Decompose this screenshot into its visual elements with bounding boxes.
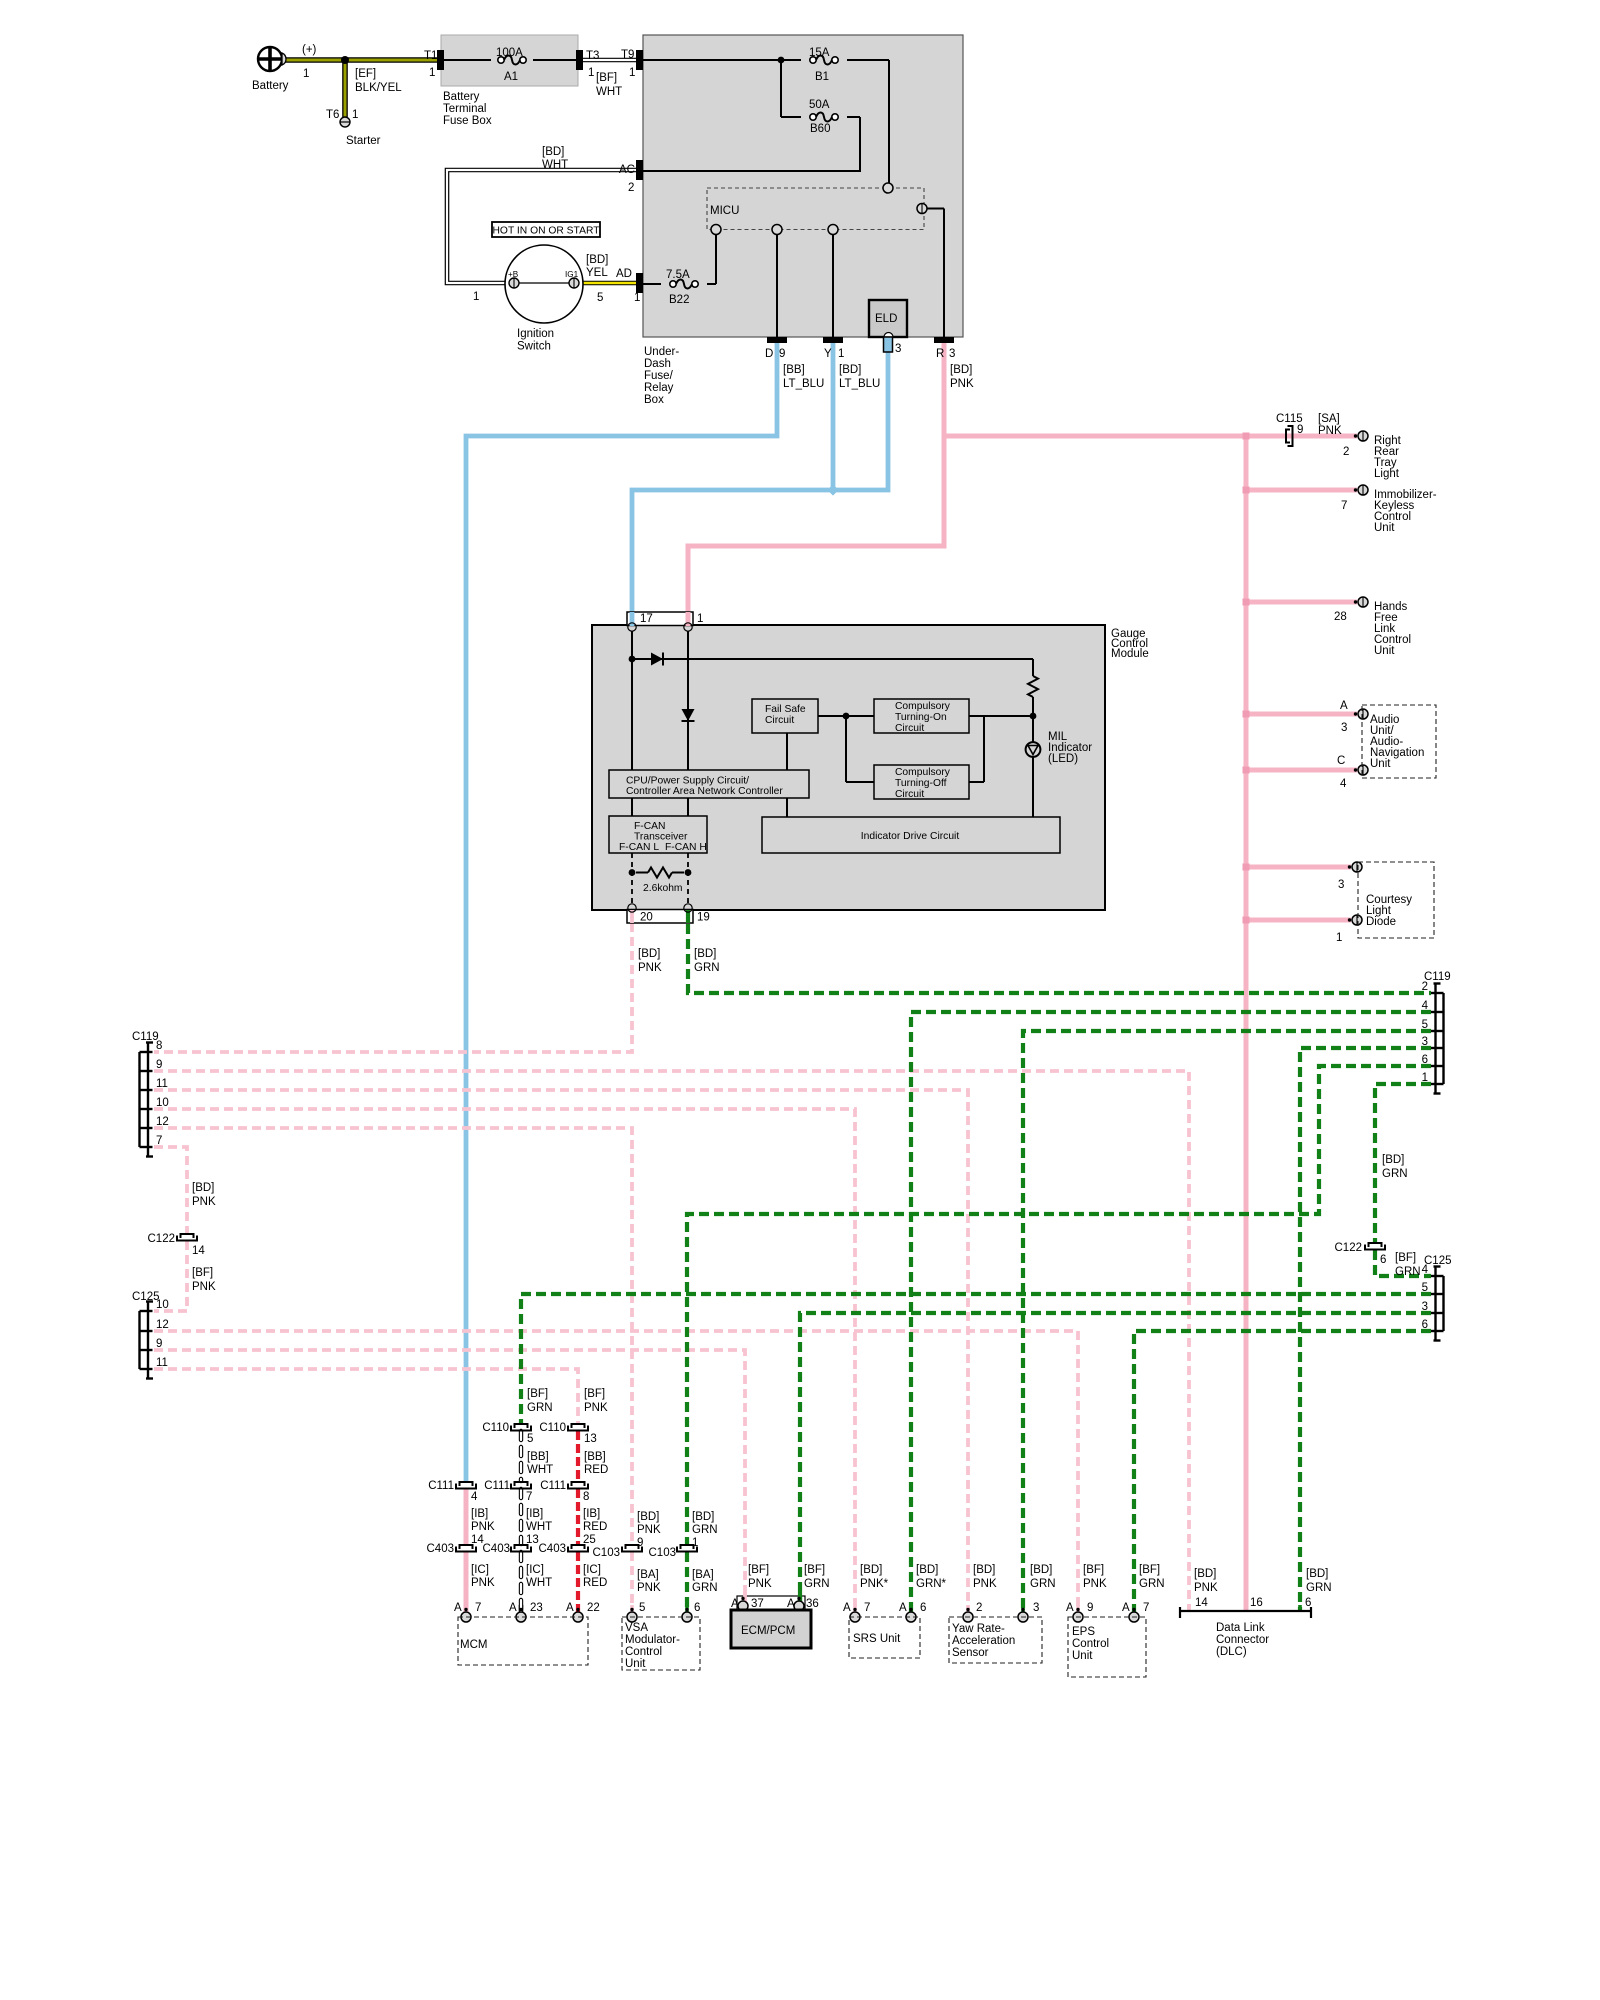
svg-text:Fuse/: Fuse/: [644, 370, 674, 382]
svg-text:28: 28: [1334, 611, 1347, 623]
svg-text:[IB]: [IB]: [471, 1508, 488, 1520]
svg-text:Circuit: Circuit: [895, 723, 924, 734]
svg-text:A: A: [1066, 1602, 1074, 1614]
svg-text:Battery: Battery: [252, 80, 289, 92]
svg-text:Yaw Rate-: Yaw Rate-: [952, 1623, 1005, 1635]
svg-text:15A: 15A: [809, 47, 830, 59]
svg-text:Unit: Unit: [1072, 1650, 1093, 1662]
svg-text:[BF]: [BF]: [584, 1388, 605, 1400]
svg-text:[BD]: [BD]: [586, 254, 608, 266]
svg-text:GRN: GRN: [1382, 1168, 1408, 1180]
svg-text:5: 5: [639, 1602, 645, 1614]
svg-text:WHT: WHT: [527, 1464, 553, 1476]
svg-text:50A: 50A: [809, 99, 830, 111]
svg-text:MICU: MICU: [710, 205, 739, 217]
svg-text:T9: T9: [621, 49, 634, 61]
svg-text:7: 7: [526, 1491, 532, 1503]
svg-text:9: 9: [156, 1059, 162, 1071]
svg-text:[IC]: [IC]: [471, 1564, 489, 1576]
svg-text:12: 12: [156, 1319, 169, 1331]
svg-text:[BD]: [BD]: [860, 1564, 882, 1576]
svg-text:Indicator Drive Circuit: Indicator Drive Circuit: [861, 831, 960, 842]
svg-text:LT_BLU: LT_BLU: [839, 378, 880, 390]
svg-text:Switch: Switch: [517, 341, 551, 353]
svg-text:GRN: GRN: [1030, 1578, 1056, 1590]
svg-text:A: A: [787, 1598, 795, 1610]
svg-text:WHT: WHT: [596, 86, 622, 98]
svg-text:C103: C103: [649, 1547, 677, 1559]
svg-text:T3: T3: [586, 50, 599, 62]
svg-text:[IC]: [IC]: [583, 1564, 601, 1576]
svg-text:Turning-Off: Turning-Off: [895, 778, 947, 789]
svg-text:Circuit: Circuit: [765, 715, 794, 726]
svg-text:1: 1: [629, 67, 635, 79]
svg-text:1: 1: [634, 292, 640, 304]
svg-text:(+): (+): [302, 44, 317, 56]
svg-text:13: 13: [584, 1433, 597, 1445]
svg-text:WHT: WHT: [542, 159, 568, 171]
svg-text:4: 4: [1422, 1000, 1429, 1012]
svg-text:6: 6: [1380, 1254, 1386, 1266]
svg-text:R: R: [936, 348, 944, 360]
svg-text:25: 25: [583, 1534, 596, 1546]
svg-text:37: 37: [751, 1598, 764, 1610]
svg-text:[BF]: [BF]: [1139, 1564, 1160, 1576]
svg-text:WHT: WHT: [526, 1521, 552, 1533]
svg-text:[BD]: [BD]: [973, 1564, 995, 1576]
svg-text:C125: C125: [1424, 1255, 1452, 1267]
svg-text:Y: Y: [824, 348, 832, 360]
svg-text:3: 3: [1338, 879, 1344, 891]
svg-text:SRS Unit: SRS Unit: [853, 1633, 901, 1645]
svg-text:4: 4: [1422, 1264, 1429, 1276]
svg-text:[BD]: [BD]: [692, 1511, 714, 1523]
svg-text:20: 20: [640, 912, 653, 924]
svg-text:6: 6: [1305, 1597, 1311, 1609]
svg-text:[BD]: [BD]: [542, 146, 564, 158]
svg-text:PNK: PNK: [973, 1578, 997, 1590]
svg-text:1: 1: [352, 109, 358, 121]
svg-text:6: 6: [920, 1602, 926, 1614]
svg-text:C122: C122: [1335, 1242, 1363, 1254]
svg-text:PNK: PNK: [1194, 1582, 1218, 1594]
svg-text:Controller Area Network Contro: Controller Area Network Controller: [626, 786, 783, 797]
svg-text:C119: C119: [132, 1031, 159, 1043]
svg-text:7: 7: [156, 1135, 162, 1147]
svg-text:PNK: PNK: [192, 1196, 216, 1208]
svg-text:[BA]: [BA]: [637, 1569, 659, 1581]
svg-text:2: 2: [628, 182, 634, 194]
svg-text:[IB]: [IB]: [583, 1508, 600, 1520]
svg-text:VSA: VSA: [625, 1622, 648, 1634]
svg-text:A: A: [899, 1602, 907, 1614]
svg-text:Dash: Dash: [644, 358, 671, 370]
svg-text:Turning-On: Turning-On: [895, 712, 947, 723]
svg-text:5: 5: [1422, 1019, 1428, 1031]
svg-text:[BD]: [BD]: [638, 948, 660, 960]
svg-text:PNK: PNK: [471, 1577, 495, 1589]
svg-text:3: 3: [1422, 1301, 1428, 1313]
svg-text:C110: C110: [482, 1422, 509, 1434]
svg-text:[BF]: [BF]: [804, 1564, 825, 1576]
svg-text:3: 3: [1033, 1602, 1039, 1614]
svg-text:T1: T1: [424, 50, 437, 62]
svg-text:F-CAN L: F-CAN L: [619, 842, 659, 853]
svg-text:B1: B1: [815, 71, 829, 83]
svg-text:11: 11: [156, 1078, 168, 1090]
svg-text:A: A: [509, 1602, 517, 1614]
svg-text:[BB]: [BB]: [584, 1451, 606, 1463]
svg-text:11: 11: [156, 1357, 168, 1369]
svg-text:Unit: Unit: [1374, 522, 1395, 534]
svg-text:[BF]: [BF]: [748, 1564, 769, 1576]
svg-text:[BD]: [BD]: [1382, 1154, 1404, 1166]
svg-text:MCM: MCM: [460, 1639, 487, 1651]
svg-text:LT_BLU: LT_BLU: [783, 378, 824, 390]
svg-text:9: 9: [1297, 424, 1303, 436]
svg-text:GRN: GRN: [692, 1582, 718, 1594]
svg-text:[BD]: [BD]: [1306, 1568, 1328, 1580]
svg-text:5: 5: [527, 1433, 533, 1445]
svg-text:6: 6: [1422, 1054, 1428, 1066]
svg-text:RED: RED: [584, 1464, 608, 1476]
svg-text:WHT: WHT: [526, 1577, 552, 1589]
svg-text:Control: Control: [1072, 1638, 1109, 1650]
svg-text:100A: 100A: [496, 47, 523, 59]
svg-text:1: 1: [588, 67, 594, 79]
svg-text:9: 9: [1087, 1602, 1093, 1614]
svg-text:PNK: PNK: [950, 378, 974, 390]
svg-text:Compulsory: Compulsory: [895, 701, 951, 712]
svg-text:Starter: Starter: [346, 135, 381, 147]
svg-text:Circuit: Circuit: [895, 789, 924, 800]
svg-text:ECM/PCM: ECM/PCM: [741, 1625, 795, 1637]
svg-text:[IC]: [IC]: [526, 1564, 544, 1576]
svg-text:T6: T6: [326, 109, 339, 121]
svg-text:1: 1: [1336, 932, 1342, 944]
svg-text:Control: Control: [625, 1646, 662, 1658]
svg-text:7: 7: [1341, 500, 1347, 512]
svg-text:1: 1: [692, 1537, 698, 1549]
svg-text:3: 3: [1341, 722, 1347, 734]
svg-text:Sensor: Sensor: [952, 1647, 989, 1659]
svg-text:GRN: GRN: [1139, 1578, 1165, 1590]
svg-text:1: 1: [1422, 1072, 1428, 1084]
svg-text:6: 6: [694, 1602, 700, 1614]
svg-text:Ignition: Ignition: [517, 328, 554, 340]
svg-text:[BD]: [BD]: [192, 1182, 214, 1194]
svg-text:A: A: [843, 1602, 851, 1614]
svg-text:3: 3: [895, 343, 901, 355]
svg-text:Unit: Unit: [1370, 758, 1391, 770]
svg-text:(LED): (LED): [1048, 753, 1078, 765]
svg-text:3: 3: [1422, 1036, 1428, 1048]
svg-text:[BD]: [BD]: [1030, 1564, 1052, 1576]
svg-text:GRN: GRN: [804, 1578, 830, 1590]
svg-text:[BF]: [BF]: [1395, 1252, 1416, 1264]
svg-text:A: A: [1122, 1602, 1130, 1614]
svg-text:[BD]: [BD]: [839, 364, 861, 376]
svg-text:Fail Safe: Fail Safe: [765, 704, 806, 715]
svg-text:A: A: [1340, 700, 1348, 712]
svg-text:17: 17: [640, 613, 653, 625]
svg-text:2: 2: [1343, 446, 1349, 458]
svg-text:F-CAN: F-CAN: [634, 821, 665, 832]
svg-text:GRN: GRN: [692, 1524, 718, 1536]
svg-text:7: 7: [1143, 1602, 1149, 1614]
svg-text:[BF]: [BF]: [596, 72, 617, 84]
svg-text:Modulator-: Modulator-: [625, 1634, 680, 1646]
svg-text:Connector: Connector: [1216, 1634, 1269, 1646]
svg-text:Unit: Unit: [1374, 645, 1395, 657]
svg-text:PNK: PNK: [638, 962, 662, 974]
svg-text:A1: A1: [504, 71, 518, 83]
svg-text:Transceiver: Transceiver: [634, 832, 688, 843]
svg-text:[BF]: [BF]: [192, 1267, 213, 1279]
svg-text:1: 1: [303, 68, 309, 80]
svg-text:+B: +B: [508, 270, 519, 279]
svg-text:Acceleration: Acceleration: [952, 1635, 1015, 1647]
svg-text:IG1: IG1: [565, 270, 579, 279]
svg-text:Compulsory: Compulsory: [895, 767, 951, 778]
svg-text:12: 12: [156, 1116, 169, 1128]
svg-text:GRN: GRN: [1395, 1266, 1421, 1278]
svg-text:PNK: PNK: [748, 1578, 772, 1590]
svg-text:7: 7: [475, 1602, 481, 1614]
svg-text:Diode: Diode: [1366, 916, 1396, 928]
svg-text:PNK*: PNK*: [860, 1578, 889, 1590]
svg-text:D: D: [765, 348, 773, 360]
svg-text:23: 23: [530, 1602, 543, 1614]
svg-text:C403: C403: [483, 1543, 511, 1555]
svg-text:PNK: PNK: [637, 1524, 661, 1536]
svg-text:A: A: [566, 1602, 574, 1614]
svg-text:2: 2: [976, 1602, 982, 1614]
svg-text:RED: RED: [583, 1577, 607, 1589]
svg-text:Module: Module: [1111, 648, 1149, 660]
svg-text:C111: C111: [540, 1480, 566, 1492]
svg-text:13: 13: [526, 1534, 539, 1546]
svg-text:Data Link: Data Link: [1216, 1622, 1265, 1634]
svg-text:8: 8: [583, 1491, 589, 1503]
svg-text:9: 9: [779, 348, 785, 360]
svg-text:[BD]: [BD]: [637, 1511, 659, 1523]
svg-text:14: 14: [192, 1245, 205, 1257]
svg-text:YEL: YEL: [586, 267, 608, 279]
svg-text:C403: C403: [427, 1543, 455, 1555]
svg-text:[BD]: [BD]: [950, 364, 972, 376]
svg-text:4: 4: [1340, 778, 1347, 790]
svg-text:C122: C122: [148, 1233, 176, 1245]
svg-text:F-CAN H: F-CAN H: [665, 842, 707, 853]
svg-text:16: 16: [1250, 1597, 1263, 1609]
svg-text:1: 1: [838, 348, 844, 360]
svg-text:9: 9: [156, 1338, 162, 1350]
svg-text:C110: C110: [539, 1422, 566, 1434]
svg-text:PNK: PNK: [471, 1521, 495, 1533]
svg-text:Relay: Relay: [644, 382, 674, 394]
svg-text:7: 7: [864, 1602, 870, 1614]
svg-text:[EF]: [EF]: [355, 68, 376, 80]
svg-text:C403: C403: [539, 1543, 567, 1555]
svg-text:[BD]: [BD]: [916, 1564, 938, 1576]
svg-text:4: 4: [471, 1491, 478, 1503]
svg-text:36: 36: [806, 1598, 819, 1610]
svg-text:Box: Box: [644, 394, 664, 406]
svg-text:9: 9: [637, 1537, 643, 1549]
svg-text:B22: B22: [669, 294, 689, 306]
svg-text:B60: B60: [810, 123, 830, 135]
svg-text:PNK: PNK: [637, 1582, 661, 1594]
svg-text:ELD: ELD: [875, 313, 897, 325]
svg-text:19: 19: [697, 912, 710, 924]
svg-text:1: 1: [429, 67, 435, 79]
svg-text:1: 1: [473, 291, 479, 303]
svg-text:C111: C111: [484, 1480, 510, 1492]
svg-text:[BB]: [BB]: [527, 1451, 549, 1463]
svg-text:[BD]: [BD]: [1194, 1568, 1216, 1580]
svg-text:22: 22: [587, 1602, 600, 1614]
svg-text:Battery: Battery: [443, 91, 480, 103]
svg-text:3: 3: [949, 348, 955, 360]
svg-text:PNK: PNK: [1083, 1578, 1107, 1590]
svg-text:C: C: [1337, 755, 1345, 767]
svg-text:C103: C103: [593, 1547, 621, 1559]
svg-text:5: 5: [1422, 1282, 1428, 1294]
svg-text:Light: Light: [1374, 468, 1400, 480]
svg-text:[BD]: [BD]: [694, 948, 716, 960]
svg-text:6: 6: [1422, 1319, 1428, 1331]
svg-text:Fuse Box: Fuse Box: [443, 115, 492, 127]
svg-text:GRN: GRN: [1306, 1582, 1332, 1594]
svg-text:[SA]: [SA]: [1318, 413, 1340, 425]
svg-text:[IB]: [IB]: [526, 1508, 543, 1520]
svg-text:HOT IN ON OR START: HOT IN ON OR START: [493, 226, 601, 237]
svg-text:Unit: Unit: [625, 1658, 646, 1670]
svg-text:1: 1: [697, 613, 703, 625]
svg-text:RED: RED: [583, 1521, 607, 1533]
svg-text:Terminal: Terminal: [443, 103, 486, 115]
svg-text:8: 8: [156, 1040, 162, 1052]
svg-text:14: 14: [1195, 1597, 1208, 1609]
svg-text:5: 5: [597, 292, 603, 304]
svg-text:GRN: GRN: [527, 1402, 553, 1414]
svg-text:7.5A: 7.5A: [666, 269, 690, 281]
svg-text:A: A: [454, 1602, 462, 1614]
svg-text:GRN*: GRN*: [916, 1578, 947, 1590]
svg-text:GRN: GRN: [694, 962, 720, 974]
svg-text:[BF]: [BF]: [527, 1388, 548, 1400]
svg-text:[BB]: [BB]: [783, 364, 805, 376]
svg-text:EPS: EPS: [1072, 1626, 1095, 1638]
svg-text:10: 10: [156, 1299, 169, 1311]
svg-text:(DLC): (DLC): [1216, 1646, 1247, 1658]
svg-text:PNK: PNK: [584, 1402, 608, 1414]
svg-text:AD: AD: [616, 268, 632, 280]
svg-text:[BF]: [BF]: [1083, 1564, 1104, 1576]
svg-text:[BA]: [BA]: [692, 1569, 714, 1581]
svg-text:BLK/YEL: BLK/YEL: [355, 82, 402, 94]
svg-text:A: A: [731, 1598, 739, 1610]
svg-text:Under-: Under-: [644, 346, 679, 358]
svg-text:CPU/Power Supply Circuit/: CPU/Power Supply Circuit/: [626, 776, 749, 787]
svg-text:AC: AC: [619, 164, 635, 176]
svg-text:2.6kohm: 2.6kohm: [643, 883, 683, 894]
svg-text:PNK: PNK: [1318, 425, 1342, 437]
svg-text:2: 2: [1422, 981, 1428, 993]
svg-text:C111: C111: [428, 1480, 454, 1492]
svg-text:PNK: PNK: [192, 1281, 216, 1293]
svg-text:10: 10: [156, 1097, 169, 1109]
